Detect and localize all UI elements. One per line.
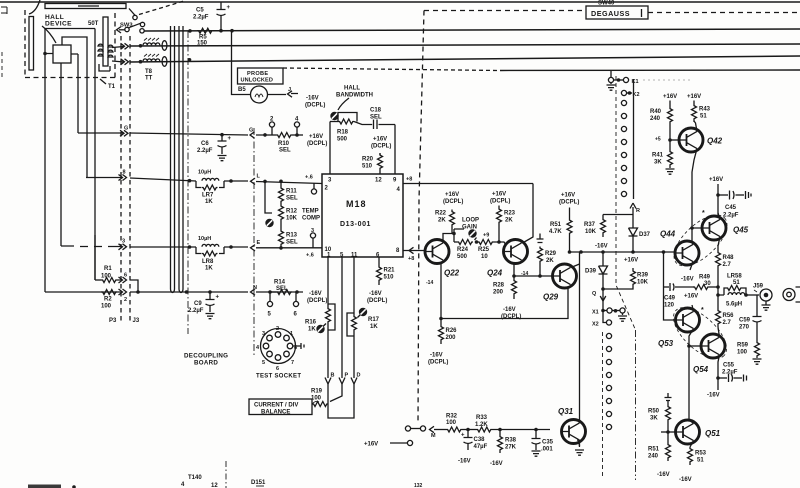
resistor R2 100 [101,290,117,295]
pin 4 wire (+8) [403,183,533,185]
svg-text:Q24: Q24 [487,269,503,278]
transistor Q44 [675,241,699,265]
svg-text:C59: C59 [739,318,751,324]
svg-text:4: 4 [181,482,185,488]
connector strip contacts (upper) [621,100,626,196]
svg-text:(DCPL): (DCPL) [443,199,463,205]
svg-text:(DCPL): (DCPL) [371,144,391,150]
connector strip rails (upper) [616,76,636,330]
resistor R40 240 [663,94,677,100]
svg-text:+16V: +16V [364,442,378,448]
svg-text:Q51: Q51 [705,429,721,438]
resistor R38 27K [499,430,501,436]
capacitor C9 [208,290,212,294]
transistor Q29 [553,264,577,288]
svg-text:4: 4 [256,345,260,351]
svg-text:R43: R43 [699,107,711,113]
svg-text:47µF: 47µF [474,444,488,450]
svg-text:Q54: Q54 [693,365,709,374]
Q24 collector wire [523,184,534,244]
hall element top loop [62,37,87,177]
svg-text:-16V: -16V [369,291,382,297]
svg-text:51: 51 [697,458,704,464]
arrow J and -16V [268,94,299,95]
svg-text:-16V: -16V [309,291,322,297]
svg-text:240: 240 [648,454,659,460]
svg-text:2: 2 [124,297,127,303]
svg-text:Q22: Q22 [444,269,460,278]
svg-text:-16V: -16V [679,477,692,483]
svg-text:HALL: HALL [344,86,360,92]
+16V feed terminal [407,440,412,445]
svg-text:-16V: -16V [503,307,516,313]
svg-text:3: 3 [311,228,314,234]
wire bus 2 [112,47,124,48]
M switch contacts [405,426,410,431]
hall element leads down [61,54,78,246]
wire hop ovals [162,41,167,51]
wire bus 3 [112,61,124,62]
svg-text:SEL: SEL [279,148,291,154]
svg-text:2: 2 [276,326,279,332]
svg-text:R11: R11 [286,189,297,195]
page edge fragment [1,7,7,14]
bottom fragments [181,475,423,488]
hall inner box [45,29,95,293]
svg-text:L: L [257,174,261,180]
+16V node and capacitor C45 [709,177,723,183]
svg-text:R40: R40 [650,109,662,115]
connector arrows B P D [325,378,357,385]
svg-text:*: * [702,210,705,217]
svg-text:TT: TT [145,76,153,82]
inductor-resistor LR58 [718,288,726,295]
svg-text:J59: J59 [753,284,764,290]
svg-text:K1: K1 [632,79,639,85]
svg-text:2K: 2K [438,218,446,224]
svg-text:T8: T8 [145,69,153,75]
svg-text:R51: R51 [550,222,562,228]
current/div balance box [249,399,312,415]
inductor-resistor LR8 [198,236,211,242]
connector strip contacts (lower) [606,333,611,429]
Q22 emitter line to Q29 emitter [441,263,568,319]
svg-text:+5: +5 [655,137,661,143]
switch SW40 label [598,1,615,7]
svg-text:R12: R12 [286,209,298,215]
svg-text:COMP: COMP [302,216,320,222]
svg-text:132: 132 [414,483,423,488]
svg-text:BALANCE: BALANCE [261,410,290,416]
Q42 emitter wire down [692,149,697,228]
svg-text:-16V: -16V [490,461,503,467]
capacitor C6 [220,133,224,137]
resistor R25 10 [478,240,494,245]
svg-text:R25: R25 [478,247,490,253]
resistor R23 2K [498,224,500,243]
transistor Q45 [702,216,726,240]
svg-text:M: M [431,433,436,439]
svg-text:B5: B5 [238,87,246,93]
svg-text:C45: C45 [725,205,737,211]
svg-text:R41: R41 [652,153,664,159]
svg-text:(DCPL): (DCPL) [305,103,325,109]
pin 8 wire to Q22 [403,250,425,252]
svg-text:C49: C49 [664,296,676,302]
svg-text:6: 6 [294,312,298,318]
svg-text:R2: R2 [104,297,112,303]
svg-text:SEL: SEL [286,240,298,246]
svg-text:3K: 3K [654,160,662,166]
transistor Q51 [676,420,700,444]
transformer T1 core [103,17,108,66]
transistor Q31 [562,420,586,444]
svg-text:PROBE: PROBE [247,71,268,77]
svg-text:R24: R24 [457,247,469,253]
svg-text:+: + [216,295,220,301]
svg-text:100: 100 [101,304,112,310]
pot R16 [326,307,331,323]
connector P3/J3 dashed lines [121,36,130,324]
SW3 linkage dashed diagonal [139,1,184,15]
svg-text:+16V: +16V [687,94,701,100]
svg-text:Q: Q [592,291,597,297]
svg-text:+16V: +16V [709,177,723,183]
svg-text:C55: C55 [723,363,735,369]
matched pair ellipse Q44/Q45 [665,206,735,274]
bus verticals (4 long wires) [171,26,175,293]
diode D37 [632,215,634,229]
diode D39 [602,252,604,266]
inductor TT [143,59,160,61]
svg-text:120: 120 [664,303,675,309]
svg-text:(DCPL): (DCPL) [428,360,448,366]
loop gain pot R24 [462,218,489,239]
svg-text:-16V: -16V [430,353,443,359]
terminal 4 [296,127,298,135]
svg-text:BOARD: BOARD [194,360,218,367]
svg-text:1K: 1K [205,266,213,272]
svg-text:5: 5 [262,360,265,366]
svg-text:R37: R37 [584,222,596,228]
svg-text:UNLOCKED: UNLOCKED [241,78,274,84]
capacitor C18 SEL [370,108,382,121]
transistor Q42 [679,128,703,152]
connector strip rails (lower) [602,332,604,478]
svg-text:+: + [227,5,231,11]
mating plug [783,289,795,301]
svg-text:-16V: -16V [657,472,670,478]
svg-text:10µH: 10µH [198,170,211,176]
resistor R51 4.7K [569,208,571,219]
transistor Q54 [701,334,725,358]
svg-text:C35: C35 [542,440,554,446]
lamp B5 [238,87,246,93]
capacitor C35 .001 [534,428,538,432]
svg-text:6: 6 [276,366,279,372]
svg-text:R49: R49 [699,275,711,281]
svg-text:E: E [257,240,261,246]
svg-text:P3: P3 [109,318,117,324]
svg-text:5.6µH: 5.6µH [726,302,742,308]
svg-text:100: 100 [737,350,748,356]
svg-text:+16V: +16V [624,258,638,264]
decoupling board label [184,353,228,367]
resistor R43 51 [687,94,701,100]
svg-text:T140: T140 [188,475,202,481]
svg-text:.001: .001 [541,447,553,453]
svg-text:LR8: LR8 [202,259,214,265]
R arrow (to delay line?) [632,207,634,215]
svg-text:2.2µF: 2.2µF [722,370,738,376]
svg-text:TEMP: TEMP [302,209,319,215]
label 50T [88,21,99,27]
svg-text:R26: R26 [446,328,458,334]
resistor R20 510 [378,154,383,170]
svg-text:P: P [345,373,349,379]
svg-text:R59: R59 [737,343,749,349]
svg-text:50T: 50T [88,21,99,27]
svg-text:1K: 1K [370,324,378,330]
svg-text:5: 5 [268,312,272,318]
svg-text:C38: C38 [474,437,486,443]
svg-text:240: 240 [650,116,661,122]
svg-text:+16V: +16V [309,134,323,140]
svg-text:+16V: +16V [561,193,575,199]
pin 5 wire down [341,257,343,378]
svg-text:R51: R51 [648,447,660,453]
switch SW3 [120,23,133,29]
svg-text:X1: X1 [592,310,599,316]
svg-text:+16V: +16V [492,192,506,198]
svg-text:+: + [228,136,232,142]
top border line [0,1,800,3]
resistor R48 2.7 [716,251,721,267]
svg-text:+16V: +16V [445,192,459,198]
probe unlocked box [238,68,284,84]
svg-text:2.2µF: 2.2µF [197,148,213,154]
resistor R37 10K [602,215,604,219]
svg-text:(DCPL): (DCPL) [559,200,579,206]
svg-text:4.7K: 4.7K [549,229,562,235]
svg-text:12: 12 [211,483,218,488]
pot R12 temp comp [280,203,282,205]
+16V (DCPL) to R20 [371,137,391,150]
wire E row (pin 10) [61,246,322,248]
svg-text:510: 510 [384,275,395,281]
wire N row [45,291,303,293]
Q22 collector network [443,229,464,243]
svg-text:30: 30 [704,281,711,287]
svg-text:2.2µF: 2.2µF [193,15,209,21]
resistor R5 [197,28,213,33]
svg-text:3K: 3K [650,416,658,422]
resistor R10 SEL [263,133,267,137]
Q output arrow [601,287,605,291]
terminals 5 and 6 [269,292,271,302]
svg-text:C9: C9 [194,301,202,307]
svg-text:SEL: SEL [276,286,288,292]
svg-text:R: R [636,208,640,214]
resistor R28 200 [513,276,515,279]
hall device dashed enclosure [25,10,115,78]
capacitor C5 [193,8,209,21]
svg-text:TEST SOCKET: TEST SOCKET [256,374,301,380]
svg-text:R56: R56 [723,313,735,319]
DEGAUSS box [586,6,648,19]
+16V (DCPL) feed [292,134,303,136]
decoupling board boundary dash-dot right [253,128,255,356]
resistor R1 100 [95,279,101,281]
deflection coil bar [45,4,126,9]
svg-text:1K: 1K [205,199,213,205]
resistor R41 3K [669,140,671,150]
svg-text:C5: C5 [196,8,204,14]
inductor-resistor LR7 [198,170,211,176]
svg-text:27K: 27K [505,445,517,451]
wire G row [78,133,265,135]
resistor R50 3K with stub [665,393,672,401]
coax jack J59 [753,284,764,290]
degauss vertical linkage [418,11,424,425]
svg-text:R53: R53 [695,451,707,457]
svg-text:+16V: +16V [684,294,698,300]
connector arrows wire2/wire3 [121,43,129,49]
svg-text:LR58: LR58 [727,274,742,280]
svg-text:10K: 10K [286,216,298,222]
svg-text:200: 200 [493,290,504,296]
svg-text:Q45: Q45 [733,226,749,235]
svg-text:B: B [331,373,335,379]
svg-text:1.2K: 1.2K [475,422,488,428]
svg-text:(DCPL): (DCPL) [367,298,387,304]
wire arc top-left [29,0,40,14]
svg-text:-16V: -16V [458,459,471,465]
svg-text:100: 100 [446,420,457,426]
svg-text:R1: R1 [104,266,112,272]
svg-text:R32: R32 [446,414,458,420]
transistor Q53 [676,308,700,332]
svg-text:R39: R39 [637,273,649,279]
matched pair ellipse Q53/Q54 [665,299,735,367]
svg-text:150: 150 [197,40,208,46]
pin 11 wire down [353,257,355,315]
svg-text:GAIN: GAIN [462,225,477,231]
svg-text:D37: D37 [639,232,651,238]
svg-text:510: 510 [362,164,373,170]
svg-text:BANDWIDTH: BANDWIDTH [336,93,373,99]
svg-text:R19: R19 [311,389,323,395]
IC M18 [322,174,403,257]
resistor R51 240 [667,432,669,443]
svg-text:DEVICE: DEVICE [45,21,72,28]
wire L row (pin 8 / L) [86,178,322,184]
capacitor C59 and resistor R59 [756,295,758,316]
svg-text:-14: -14 [426,280,433,286]
svg-text:R16: R16 [305,320,317,326]
svg-text:R38: R38 [505,438,517,444]
terminal (pin10 side) [310,233,315,238]
T1 secondary coil [108,45,113,57]
svg-text:D13-001: D13-001 [340,221,371,228]
capacitor C49 / resistor R49 network [664,252,677,320]
svg-text:10: 10 [481,254,488,260]
svg-text:+16V: +16V [373,137,387,143]
resistor R56 2.7 [716,309,721,325]
svg-text:Q44: Q44 [660,230,676,239]
svg-text:3: 3 [262,331,265,337]
svg-text:R14: R14 [274,280,286,286]
resistor R33 1.2K [476,427,492,432]
terminal (pin2 side) [313,183,315,189]
svg-text:R18: R18 [337,130,349,136]
svg-text:2K: 2K [505,218,513,224]
svg-text:LOOP: LOOP [462,218,479,224]
svg-text:+9: +9 [483,233,489,239]
svg-text:DECOUPLING: DECOUPLING [184,353,228,360]
svg-text:+8: +8 [408,256,414,262]
svg-text:R17: R17 [368,317,380,323]
Q24 emitter network [514,264,553,277]
svg-text:LR7: LR7 [202,193,214,199]
hall device label [45,14,72,28]
svg-text:12: 12 [375,178,382,184]
resistor R21 510 [378,257,380,266]
svg-text:T1: T1 [108,84,116,90]
svg-text:51: 51 [733,280,740,286]
svg-text:Q29: Q29 [543,293,559,302]
resistor R39 10K [624,258,638,264]
relay contact K2 [621,90,626,95]
svg-text:500: 500 [337,137,348,143]
svg-text:X2: X2 [592,322,599,328]
label T1 [108,84,116,90]
svg-text:J: J [288,87,291,93]
svg-text:(DCPL): (DCPL) [307,141,327,147]
inductor T8 [143,43,160,45]
svg-text:R22: R22 [435,211,447,217]
svg-text:2.2µF: 2.2µF [188,308,204,314]
wire bus 1 [145,29,800,31]
svg-text:D: D [357,373,361,379]
svg-text:R21: R21 [384,268,396,274]
svg-text:R33: R33 [476,415,488,421]
relay contact K1 [610,71,612,78]
svg-text:R50: R50 [648,409,660,415]
pot R17 [352,315,357,331]
svg-text:10K: 10K [637,280,649,286]
svg-text:R28: R28 [493,283,505,289]
svg-text:SEL: SEL [286,196,298,202]
svg-text:3: 3 [122,239,125,245]
svg-text:+.6: +.6 [306,253,314,259]
pot R18 (hall bandwidth) [330,112,338,120]
svg-text:D151: D151 [251,480,266,486]
svg-text:-16V: -16V [306,96,319,102]
capacitor C38 47uF [467,430,469,438]
test socket [261,329,296,364]
svg-text:D39: D39 [585,269,597,275]
HALL BANDWIDTH label [336,86,373,99]
svg-text:R10: R10 [278,141,290,147]
svg-text:R48: R48 [723,255,735,261]
svg-text:6: 6 [124,273,127,279]
svg-text:+: + [461,433,465,439]
svg-text:Q42: Q42 [707,137,723,146]
svg-text:+16V: +16V [663,94,677,100]
hall device left bar [29,17,34,71]
resistor R13 SEL [280,221,282,230]
